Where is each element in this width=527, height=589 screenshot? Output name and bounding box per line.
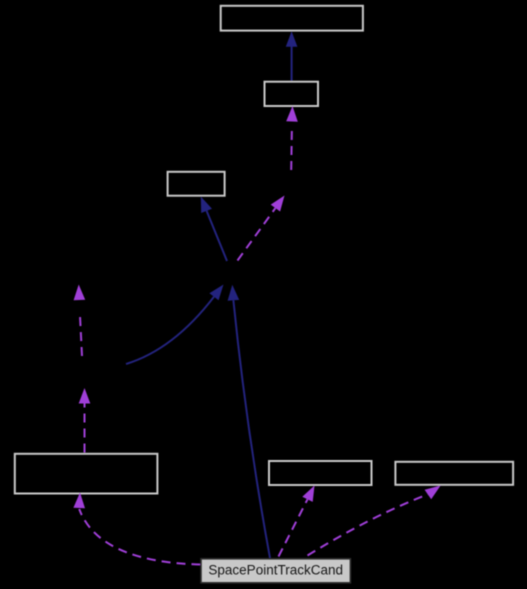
wire: blue long inheritance edge SpacePointTrackCand to central node bbox=[228, 285, 270, 558]
node box D (left, empty) bbox=[15, 454, 158, 494]
node SpacePointTrackCand (central class node) bbox=[201, 559, 350, 583]
wire: blue inheritance edge B to A bbox=[286, 31, 298, 80]
wire: purple dashed edge SpacePointTrackCand to F bbox=[308, 486, 441, 556]
node box E (empty) bbox=[269, 461, 372, 485]
node box F (right, empty) bbox=[395, 462, 513, 485]
wire: purple dashed curved edge SpacePointTrackCand to D bbox=[73, 493, 200, 565]
node box B (empty) bbox=[265, 82, 319, 106]
wire: blue curved inheritance edge from left into central node bbox=[126, 285, 224, 365]
node box A (top, empty) bbox=[221, 6, 363, 31]
svg-text:SpacePointTrackCand: SpacePointTrackCand bbox=[208, 562, 343, 577]
wire: blue inheritance edge central node to C bbox=[201, 197, 227, 262]
node box C (empty) bbox=[168, 172, 225, 196]
wire: purple dashed edge SpacePointTrackCand to E bbox=[279, 486, 315, 557]
wire: purple dashed edge D to left label-node bbox=[79, 388, 91, 453]
wire: purple dashed edge central node to label-node bbox=[238, 196, 285, 261]
wire: purple dashed edge left label-node upward bbox=[74, 285, 86, 357]
wire: purple dashed edge label-node to B bbox=[286, 106, 298, 170]
